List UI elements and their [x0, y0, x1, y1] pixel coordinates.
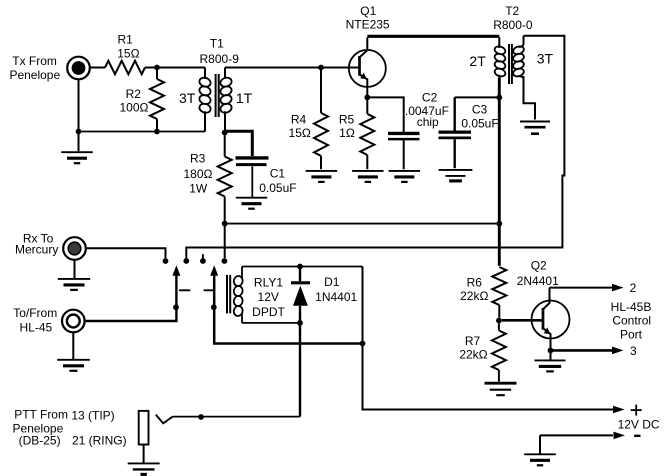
resistor R4	[320, 70, 322, 113]
transformer T2 core	[508, 44, 510, 84]
svg-text:(DB-25): (DB-25)	[19, 434, 61, 448]
svg-text:22kΩ: 22kΩ	[460, 289, 488, 303]
resistor R5	[366, 100, 368, 114]
node pole 2 pivot	[211, 304, 217, 310]
svg-text:180Ω: 180Ω	[184, 167, 213, 181]
transformer T2 right winding 3T	[519, 36, 524, 47]
svg-text:15Ω: 15Ω	[289, 126, 311, 140]
svg-text:Port: Port	[620, 328, 643, 342]
wire R1 to node	[145, 67, 205, 69]
svg-text:NTE235: NTE235	[346, 17, 390, 31]
svg-text:Penelope: Penelope	[9, 68, 60, 82]
svg-text:R1: R1	[118, 33, 134, 47]
wire Q2 emitter to pin 3	[553, 349, 612, 352]
svg-text:Tx From: Tx From	[12, 54, 57, 68]
svg-text:R3: R3	[190, 152, 206, 166]
connector J2 Rx To Mercury	[63, 237, 86, 260]
wire ground bus left	[79, 131, 206, 133]
wire relay pole 2 to +12V rail	[214, 275, 362, 344]
svg-text:12V: 12V	[258, 290, 279, 304]
svg-text:0.05uF: 0.05uF	[259, 181, 296, 195]
node relay contact 3	[200, 258, 206, 264]
capacitor C1	[236, 156, 269, 159]
label -	[634, 435, 640, 437]
node D1 anode	[297, 320, 303, 326]
wire Q2 emitter ground stem	[550, 353, 552, 360]
wire Mercury ground stem	[74, 260, 76, 279]
svg-text:22kΩ: 22kΩ	[459, 348, 487, 362]
arrow terminal 2	[612, 284, 624, 292]
wire T2 secondary bottom to ground	[524, 76, 536, 119]
ground R5	[352, 171, 384, 182]
wire Tx connector stem	[78, 79, 80, 131]
svg-text:Control: Control	[612, 313, 651, 327]
jack PTT tip contact	[156, 415, 173, 424]
svg-text:D1: D1	[324, 275, 340, 289]
wire +12V rail	[363, 267, 614, 410]
ground HL-45	[57, 360, 90, 371]
svg-text:DPDT: DPDT	[252, 305, 285, 319]
wire emitter node to C2	[370, 97, 404, 131]
wire Q1 collector to T2 (thick)	[367, 35, 499, 38]
node relay contact 1	[163, 258, 169, 264]
svg-text:3T: 3T	[537, 51, 554, 67]
arrow terminal +	[613, 406, 625, 414]
node divider top	[496, 221, 502, 227]
node C3 tap	[496, 95, 502, 101]
resistor R2	[156, 70, 158, 79]
wire - to ground	[539, 435, 541, 453]
svg-text:R800-0: R800-0	[493, 18, 533, 32]
ground C2	[389, 171, 421, 182]
resistor R7	[498, 323, 500, 330]
svg-text:1Ω: 1Ω	[339, 126, 355, 140]
svg-text:21 (RING): 21 (RING)	[72, 433, 127, 447]
svg-text:1T: 1T	[236, 90, 253, 106]
node T1 secondary bottom	[222, 130, 228, 136]
svg-text:12V DC: 12V DC	[618, 418, 660, 432]
node Tx stem/bus	[76, 129, 82, 135]
svg-text:15Ω: 15Ω	[117, 47, 139, 61]
wire T1 bottom to C1 (thick)	[226, 131, 252, 156]
label +	[631, 409, 642, 411]
ground R7	[485, 383, 517, 395]
transformer T1 core	[215, 74, 217, 117]
transistor Q1	[349, 50, 386, 87]
svg-text:Mercury: Mercury	[15, 243, 58, 257]
capacitor C3	[454, 97, 456, 130]
svg-text:T1: T1	[210, 37, 224, 51]
relay box bottom edge	[242, 322, 300, 324]
svg-text:1W: 1W	[189, 181, 208, 195]
svg-text:R4: R4	[291, 113, 307, 127]
ground C1	[236, 198, 267, 209]
resistor R3	[224, 136, 226, 157]
node Q2 emitter	[548, 348, 554, 354]
ground input	[61, 152, 93, 163]
ground Mercury	[58, 279, 90, 290]
svg-text:R6: R6	[467, 276, 483, 290]
node relay contact 2	[183, 258, 189, 264]
wire T1 to Q1 base	[225, 67, 358, 69]
transformer T1 right winding 1T	[224, 68, 226, 80]
wire PTT to relay	[173, 416, 300, 418]
wire T2 primary return (thick vertical)	[498, 78, 501, 266]
node Q2 base node	[496, 318, 502, 324]
node pole 1 pivot	[173, 304, 179, 310]
wire stem to ground	[78, 132, 80, 152]
ground C3	[439, 170, 473, 181]
svg-text:HL-45B: HL-45B	[611, 300, 652, 314]
svg-text:chip: chip	[417, 115, 439, 129]
wire Q2 base	[502, 319, 542, 322]
node pole2 tap on +12V rail	[360, 341, 366, 347]
relay RLY1 core	[226, 275, 228, 314]
svg-text:To/From: To/From	[13, 306, 57, 320]
svg-text:3T: 3T	[179, 90, 196, 106]
node PTT wire dot	[198, 414, 204, 420]
node R3 bottom	[222, 221, 228, 227]
svg-text:C1: C1	[270, 167, 286, 181]
svg-text:2: 2	[630, 281, 637, 295]
jack PTT sleeve	[139, 411, 149, 445]
svg-text:100Ω: 100Ω	[120, 101, 149, 115]
svg-text:RLY1: RLY1	[254, 275, 283, 289]
wire node to C3	[455, 96, 497, 98]
ground PTT	[128, 463, 160, 474]
capacitor C2	[388, 132, 420, 135]
connector J3 To/From HL-45	[62, 310, 85, 333]
wire relay pole 1 to HL-45	[86, 275, 177, 321]
wire TX line contact2 to T2 secondary	[186, 36, 564, 259]
transistor Q2	[532, 301, 570, 339]
svg-text:2T: 2T	[469, 53, 486, 69]
svg-text:HL-45: HL-45	[20, 320, 53, 334]
svg-text:R5: R5	[339, 113, 355, 127]
svg-text:Q1: Q1	[360, 4, 376, 18]
svg-text:1N4401: 1N4401	[315, 290, 357, 304]
svg-text:3: 3	[630, 344, 637, 358]
ground T2	[520, 122, 550, 134]
node relay contact 4	[222, 258, 228, 264]
wire R3 node to divider node	[225, 223, 500, 225]
relay pole 2 arrow	[210, 265, 218, 276]
svg-text:R7: R7	[465, 334, 481, 348]
transformer T2 left winding 2T	[498, 37, 500, 48]
wire HL-45 ground stem	[72, 332, 74, 359]
resistor R6	[492, 267, 506, 305]
node D1 cathode	[297, 264, 303, 270]
wire D1 anode to PTT line	[299, 323, 301, 417]
svg-text:R2: R2	[126, 87, 142, 101]
node R1/R2/T1 junction	[154, 65, 160, 71]
wire Mercury to contact 1	[86, 248, 165, 258]
svg-text:C2: C2	[422, 90, 438, 104]
relay box top edge	[242, 266, 363, 268]
svg-text:PTT From: PTT From	[14, 408, 68, 422]
wire Q2 collector to pin 2	[550, 287, 613, 289]
wire connector to R1	[90, 67, 105, 69]
ground 12VDC return	[524, 454, 556, 465]
svg-text:C3: C3	[472, 103, 488, 117]
relay mechanical linkage dashes	[179, 289, 190, 291]
node Q1 emitter junction	[364, 95, 370, 101]
connector J1 Tx From Penelope	[67, 57, 90, 80]
node R4 tap	[318, 65, 324, 71]
svg-text:13 (TIP): 13 (TIP)	[71, 409, 114, 423]
svg-text:R800-9: R800-9	[200, 52, 240, 66]
svg-text:T2: T2	[505, 4, 519, 18]
transformer T1 left winding 3T	[204, 68, 206, 80]
ground Q2	[535, 360, 566, 371]
node R2 bottom/bus	[154, 129, 160, 135]
resistor R1	[105, 61, 145, 74]
svg-text:0.05uF: 0.05uF	[461, 117, 498, 131]
wire PTT ground stem	[143, 445, 145, 463]
svg-text:2N4401: 2N4401	[517, 274, 559, 288]
arrow terminal -	[614, 432, 626, 440]
ground R4	[306, 171, 338, 182]
wire -12V terminal	[540, 434, 613, 436]
relay pole 1 arrow	[172, 265, 180, 276]
arrow terminal 3	[612, 347, 624, 355]
relay RLY1 coil	[241, 267, 243, 279]
diode D1	[299, 267, 301, 282]
svg-text:Q2: Q2	[531, 259, 547, 273]
